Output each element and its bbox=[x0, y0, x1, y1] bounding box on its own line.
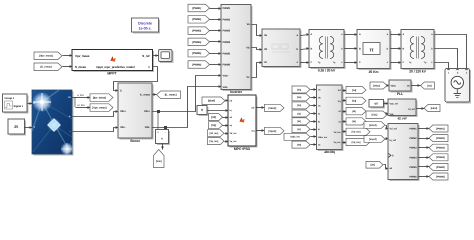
svg-text:[Ia]: [Ia] bbox=[297, 112, 301, 115]
svg-text:[Vqref]: [Vqref] bbox=[268, 130, 276, 133]
svg-text:[PWM6]: [PWM6] bbox=[436, 175, 445, 178]
svg-text:[wt]: [wt] bbox=[427, 84, 431, 87]
svg-text:Inverter: Inverter bbox=[230, 90, 243, 94]
svg-text:Id_ref: Id_ref bbox=[409, 108, 415, 111]
svg-text:[Ib]: [Ib] bbox=[297, 120, 301, 123]
svg-text:0: 0 bbox=[201, 108, 203, 112]
svg-text:[Vq_inv]: [Vq_inv] bbox=[209, 140, 218, 143]
svg-text:[Vq]: [Vq] bbox=[352, 100, 357, 103]
svg-text:vdr: vdr bbox=[251, 107, 254, 110]
svg-text:Id_ref: Id_ref bbox=[398, 116, 408, 120]
svg-text:[Vq]: [Vq] bbox=[211, 124, 216, 127]
svg-text:[Vabc]: [Vabc] bbox=[373, 84, 380, 87]
svg-text:IL_meas: IL_meas bbox=[140, 94, 151, 97]
svg-text:0.26 / 20 kV: 0.26 / 20 kV bbox=[318, 69, 336, 73]
svg-text:25 Km: 25 Km bbox=[369, 70, 379, 74]
svg-text:PWM4: PWM4 bbox=[223, 41, 231, 44]
svg-text:idr: idr bbox=[230, 100, 233, 103]
svg-text:Vq_inv: Vq_inv bbox=[230, 140, 238, 143]
svg-text:Vd_ref: Vd_ref bbox=[390, 128, 397, 131]
svg-text:[PWM2]: [PWM2] bbox=[436, 137, 445, 140]
svg-text:[PWM6]: [PWM6] bbox=[192, 63, 201, 66]
svg-text:25: 25 bbox=[14, 125, 18, 129]
svg-text:[PWM1]: [PWM1] bbox=[436, 127, 445, 130]
svg-text:[wt]: [wt] bbox=[297, 143, 301, 146]
svg-text:wt: wt bbox=[407, 85, 410, 88]
svg-text:S_meas: S_meas bbox=[75, 65, 86, 69]
svg-text:Vdc-: Vdc- bbox=[145, 126, 151, 129]
svg-text:[PWM4]: [PWM4] bbox=[192, 41, 201, 44]
svg-text:[Idref]: [Idref] bbox=[431, 107, 438, 110]
svg-text:-: - bbox=[70, 129, 71, 133]
svg-text:PWM2: PWM2 bbox=[223, 18, 231, 21]
svg-text:[IL_meas]: [IL_meas] bbox=[40, 66, 51, 69]
svg-text:20 / 120 kV: 20 / 120 kV bbox=[409, 70, 426, 74]
svg-text:S_ref: S_ref bbox=[142, 54, 149, 58]
svg-text:[Vdc]: [Vdc] bbox=[372, 114, 378, 117]
svg-text:Vpv_meas: Vpv_meas bbox=[75, 54, 90, 58]
svg-text:Vb: Vb bbox=[264, 48, 268, 51]
svg-text:[Vd_inv]: [Vd_inv] bbox=[209, 132, 218, 135]
svg-text:[Vd]: [Vd] bbox=[352, 89, 357, 92]
svg-text:Vabc_inv: Vabc_inv bbox=[290, 136, 300, 139]
svg-text:1e-05 s.: 1e-05 s. bbox=[139, 26, 152, 30]
svg-text:[Va]: [Va] bbox=[297, 88, 301, 91]
svg-text:PWM5: PWM5 bbox=[223, 52, 231, 55]
svg-text:Vd_inv: Vd_inv bbox=[230, 132, 238, 135]
svg-text:<V_PV>: <V_PV> bbox=[77, 104, 86, 107]
svg-text:PWM6: PWM6 bbox=[223, 64, 231, 67]
svg-text:Boost: Boost bbox=[130, 139, 140, 143]
svg-text:[PWM1]: [PWM1] bbox=[192, 7, 201, 10]
svg-text:Ir: Ir bbox=[34, 102, 36, 105]
svg-text:PWM6: PWM6 bbox=[410, 176, 418, 179]
svg-text:PWM3: PWM3 bbox=[410, 147, 418, 150]
svg-text:[Vb]: [Vb] bbox=[297, 96, 302, 99]
svg-text:[Vpv_meas]: [Vpv_meas] bbox=[92, 106, 106, 109]
svg-text:PWM1: PWM1 bbox=[410, 128, 418, 131]
svg-text:[Vdref]: [Vdref] bbox=[369, 124, 377, 127]
svg-text:PLL: PLL bbox=[397, 92, 403, 96]
svg-text:Vq_inv: Vq_inv bbox=[334, 141, 342, 144]
svg-text:[IL_meas]: [IL_meas] bbox=[165, 94, 177, 97]
svg-text:+: + bbox=[69, 114, 71, 118]
svg-text:Discrete: Discrete bbox=[138, 21, 152, 25]
svg-text:Vb: Vb bbox=[246, 47, 250, 50]
svg-text:<I_PV>: <I_PV> bbox=[77, 94, 85, 97]
svg-text:Signal 1: Signal 1 bbox=[14, 105, 24, 108]
svg-text:abc/dq: abc/dq bbox=[324, 150, 335, 154]
svg-text:Vdc-: Vdc- bbox=[223, 86, 229, 89]
svg-text:Vdc_ref: Vdc_ref bbox=[390, 102, 398, 105]
svg-text:[Vd_inv]: [Vd_inv] bbox=[352, 131, 361, 134]
svg-text:mppt_mpc_predictive_model: mppt_mpc_predictive_model bbox=[96, 65, 135, 69]
svg-text:[wt]: [wt] bbox=[371, 164, 375, 167]
svg-text:[Ic]: [Ic] bbox=[297, 128, 301, 131]
svg-text:[PWM3]: [PWM3] bbox=[436, 147, 445, 150]
svg-text:PWM1: PWM1 bbox=[223, 7, 231, 10]
svg-text:Group 1: Group 1 bbox=[5, 97, 15, 100]
svg-text:[PWM3]: [PWM3] bbox=[192, 30, 201, 33]
svg-text:[Idref]: [Idref] bbox=[208, 100, 215, 103]
svg-text:[PWM5]: [PWM5] bbox=[436, 166, 445, 169]
svg-text:PWM5: PWM5 bbox=[410, 166, 418, 169]
svg-text:[Vqref]: [Vqref] bbox=[369, 138, 377, 141]
svg-text:[Vdref]: [Vdref] bbox=[268, 107, 276, 110]
svg-text:wt: wt bbox=[390, 167, 393, 170]
svg-text:Vdc+: Vdc+ bbox=[120, 110, 127, 113]
svg-text:PWM4: PWM4 bbox=[410, 156, 418, 159]
svg-text:[Id]: [Id] bbox=[352, 110, 356, 113]
svg-text:Vabc: Vabc bbox=[391, 85, 397, 88]
svg-text:Vdc+: Vdc+ bbox=[223, 75, 230, 78]
svg-text:[Vc]: [Vc] bbox=[297, 104, 301, 107]
svg-text:PWM2: PWM2 bbox=[410, 137, 418, 140]
svg-text:Vdc+: Vdc+ bbox=[144, 110, 151, 113]
svg-text:wt: wt bbox=[318, 144, 321, 147]
svg-text:[PWM5]: [PWM5] bbox=[192, 52, 201, 55]
svg-text:[Iq]: [Iq] bbox=[352, 120, 356, 123]
svg-text:Vd_inv: Vd_inv bbox=[334, 131, 342, 134]
svg-text:Vdc-: Vdc- bbox=[120, 126, 126, 129]
svg-text:MPC+PSO: MPC+PSO bbox=[234, 147, 251, 151]
svg-text:[PWM2]: [PWM2] bbox=[192, 18, 201, 21]
svg-text:[Ipv_meas]: [Ipv_meas] bbox=[93, 96, 106, 99]
svg-text:Vabc_inv: Vabc_inv bbox=[318, 136, 328, 139]
svg-text:[Vpv_meas]: [Vpv_meas] bbox=[39, 55, 53, 58]
svg-text:[Vd]: [Vd] bbox=[211, 116, 216, 119]
svg-text:[Vdc]: [Vdc] bbox=[156, 160, 162, 163]
svg-text:[PWM4]: [PWM4] bbox=[436, 156, 445, 159]
svg-text:[Vq_inv]: [Vq_inv] bbox=[352, 141, 361, 144]
svg-text:427: 427 bbox=[374, 103, 379, 106]
svg-text:MPPT: MPPT bbox=[107, 72, 117, 76]
svg-text:PWM3: PWM3 bbox=[223, 30, 231, 33]
svg-text:Iq_ref: Iq_ref bbox=[390, 139, 396, 142]
